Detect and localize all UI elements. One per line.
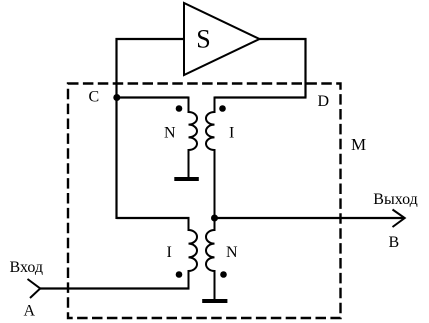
wire: node C to upper-left winding bbox=[117, 96, 189, 98]
wire: amplifier output horizontal bbox=[260, 38, 307, 40]
node B output junction dot bbox=[211, 215, 218, 222]
inductor N (upper transformer left winding) bbox=[189, 97, 198, 178]
svg-text:C: C bbox=[89, 89, 100, 106]
inductor N (lower transformer right winding) bbox=[206, 218, 215, 299]
arrowhead input (Vhod) bbox=[28, 279, 41, 298]
wire: output vertical down to node D level bbox=[304, 38, 306, 98]
svg-text:S: S bbox=[196, 24, 210, 53]
wire: node D horizontal to upper-right winding bbox=[215, 96, 307, 98]
phase dot lower-right winding bbox=[220, 271, 227, 278]
svg-text:Выход: Выход bbox=[373, 191, 418, 208]
dashed feedback block boundary M bbox=[68, 84, 341, 319]
svg-text:Вход: Вход bbox=[10, 259, 44, 276]
arrowhead output (Vyhod) bbox=[393, 210, 405, 228]
svg-text:N: N bbox=[226, 244, 238, 261]
ground (upper) bbox=[174, 177, 199, 181]
svg-text:I: I bbox=[167, 244, 172, 261]
ground (lower) bbox=[202, 299, 227, 303]
inductor I (upper transformer right winding) bbox=[206, 97, 215, 220]
op-amp S (amplifier triangle) bbox=[184, 3, 260, 75]
inductor I (lower transformer left winding) bbox=[189, 217, 198, 290]
svg-text:В: В bbox=[389, 234, 400, 251]
svg-text:I: I bbox=[229, 124, 234, 141]
wire: left vertical from input down to lower branch bbox=[115, 38, 117, 219]
wire: lower branch horizontal from left vertical to lower-left winding bbox=[117, 217, 190, 219]
svg-text:M: M bbox=[351, 135, 366, 154]
wire: output to Vyhod arrow bbox=[215, 217, 404, 219]
svg-text:D: D bbox=[318, 93, 330, 110]
phase dot upper-left winding bbox=[176, 105, 183, 112]
svg-text:А: А bbox=[24, 303, 36, 320]
phase dot upper-right winding bbox=[219, 105, 226, 112]
svg-text:N: N bbox=[164, 124, 176, 141]
phase dot lower-left winding bbox=[176, 271, 183, 278]
node C junction dot bbox=[113, 94, 120, 101]
wire: Vhod input to lower-left winding bbox=[40, 287, 190, 289]
wire: amplifier input horizontal bbox=[116, 38, 185, 40]
